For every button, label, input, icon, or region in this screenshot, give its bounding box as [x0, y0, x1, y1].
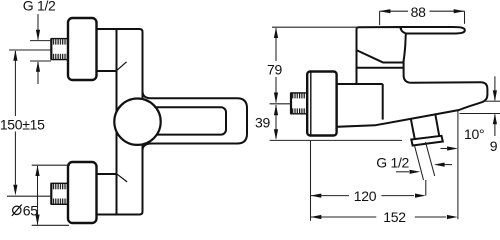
svg-text:152: 152: [383, 209, 406, 225]
svg-text:G 1/2: G 1/2: [376, 154, 409, 170]
svg-text:150±15: 150±15: [0, 117, 45, 133]
svg-text:9: 9: [490, 138, 498, 154]
svg-text:120: 120: [354, 188, 377, 204]
svg-text:88: 88: [411, 4, 426, 20]
svg-text:79: 79: [267, 61, 282, 77]
svg-text:65: 65: [23, 202, 38, 218]
svg-text:G 1/2: G 1/2: [23, 0, 56, 14]
svg-text:39: 39: [255, 114, 270, 130]
svg-text:10°: 10°: [464, 126, 484, 142]
